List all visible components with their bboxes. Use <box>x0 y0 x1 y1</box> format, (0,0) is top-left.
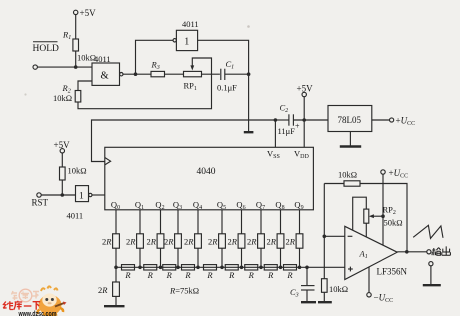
wire op-amp output <box>397 251 427 253</box>
junction dot C3 tap <box>305 266 309 270</box>
wire R2 bottom feedback to RP1 wiper <box>78 58 212 109</box>
svg-text:VSS: VSS <box>267 149 280 161</box>
svg-text:A1: A1 <box>359 249 368 261</box>
wire +5V to R1 <box>75 15 77 39</box>
junction dot VDD node <box>302 118 306 122</box>
potentiometer RP1 <box>184 71 202 92</box>
watermark title wei ku yi xia (red) <box>3 301 40 310</box>
svg-text:2R: 2R <box>102 237 112 247</box>
resistor 2R (bit 0) <box>102 234 119 248</box>
svg-text:2R: 2R <box>146 237 156 247</box>
ground (10k) <box>318 301 332 303</box>
wire VDD pin <box>303 120 305 147</box>
watermark ghost logo <box>12 289 40 302</box>
wire Q3 to 2R <box>177 210 179 234</box>
svg-text:Q3: Q3 <box>173 200 182 212</box>
op-amp A1 LF356N <box>345 226 408 279</box>
node Q5 output pin <box>217 200 226 212</box>
junction dot rail 8 <box>279 266 283 270</box>
junction dot rail 4 <box>196 266 200 270</box>
svg-text:R: R <box>286 270 293 280</box>
svg-text:+UCC: +UCC <box>389 168 409 180</box>
svg-text:RP2: RP2 <box>383 205 396 217</box>
wire Q0 to 2R <box>115 210 117 234</box>
resistor R (ladder 9) <box>284 265 297 280</box>
svg-text:R=75kΩ: R=75kΩ <box>169 286 199 296</box>
junction dot rail 0 <box>114 266 118 270</box>
svg-text:R: R <box>147 270 154 280</box>
wire 2R to rail <box>160 248 162 267</box>
wire 2R to rail <box>139 248 141 267</box>
wire rail to C3 <box>306 267 308 285</box>
svg-text:LF356N: LF356N <box>377 267 408 277</box>
svg-text:R1: R1 <box>62 30 71 42</box>
node +5V terminal (RST) <box>54 140 71 153</box>
wire NAND lower input to R2 <box>78 81 92 91</box>
svg-text:R: R <box>184 270 191 280</box>
capacitor C2 11uF <box>278 103 301 137</box>
wire Q2 to 2R <box>160 210 162 234</box>
resistor 10k feedback <box>338 170 360 187</box>
wire feedback top <box>324 183 344 185</box>
wiper arrowhead RP1 <box>190 65 194 70</box>
svg-text:10kΩ: 10kΩ <box>329 284 348 294</box>
node Q4 output pin <box>193 200 202 212</box>
svg-text:&: & <box>101 71 109 82</box>
regulator 78L05 <box>328 106 372 132</box>
ground (C3) <box>301 301 316 303</box>
node -Ucc terminal <box>367 293 393 305</box>
wire Q6 to 2R <box>241 210 243 234</box>
junction dot rail 5 <box>220 266 224 270</box>
resistor R (ladder 3) <box>163 265 176 280</box>
junction dot rail 3 <box>176 266 180 270</box>
node Q8 output pin <box>275 200 284 212</box>
wire NAND output to R3 <box>123 73 151 75</box>
node Q0 output pin <box>111 200 120 212</box>
wire Q5 to 2R <box>221 210 223 234</box>
svg-text:RP1: RP1 <box>184 81 197 93</box>
node +5V terminal (top left) <box>74 8 97 18</box>
svg-text:+5V: +5V <box>80 8 97 18</box>
svg-text:R: R <box>166 270 173 280</box>
junction dot rail 7 <box>259 266 263 270</box>
resistor 10k pullup (RST) <box>60 166 87 181</box>
resistor R (ladder 8) <box>264 265 277 280</box>
svg-text:R: R <box>228 270 235 280</box>
resistor R (ladder 5) <box>204 265 217 280</box>
svg-text:11μF: 11μF <box>278 126 296 136</box>
wire 2R to rail <box>280 248 282 267</box>
junction dot RP2 wiper <box>381 214 385 218</box>
svg-text:10kΩ: 10kΩ <box>53 93 72 103</box>
wire RP1 to C1 <box>202 73 220 75</box>
svg-text:2R: 2R <box>285 237 295 247</box>
svg-text:4011: 4011 <box>94 54 111 64</box>
svg-text:1: 1 <box>184 36 189 47</box>
wire Q7 to 2R <box>260 210 262 234</box>
svg-text:10kΩ: 10kΩ <box>338 170 357 180</box>
svg-text:R: R <box>248 270 255 280</box>
wire C1 to inverter-output node <box>225 73 249 75</box>
svg-text:10kΩ: 10kΩ <box>68 166 87 176</box>
wire node to C2 <box>275 119 288 121</box>
capacitor C3 <box>290 286 315 299</box>
junction dot NAND output <box>134 72 138 76</box>
svg-text:Q8: Q8 <box>275 200 284 212</box>
resistor 10k to ground (inverting input) <box>322 279 349 294</box>
resistor 2R (bit 1) <box>126 234 143 248</box>
wire RP2 bottom to op-amp <box>365 223 367 237</box>
node Q3 output pin <box>173 200 182 212</box>
wire inverter to 4040 reset pin <box>92 194 105 196</box>
node Q2 output pin <box>155 200 164 212</box>
svg-text:VDD: VDD <box>294 149 309 161</box>
ground (regulator) <box>340 145 361 147</box>
node output ground terminal <box>429 262 433 266</box>
svg-text:C3: C3 <box>290 287 299 299</box>
svg-text:C2: C2 <box>280 103 289 115</box>
svg-text:0.1μF: 0.1μF <box>217 83 237 93</box>
svg-text:R: R <box>267 270 274 280</box>
svg-text:+: + <box>295 122 300 131</box>
svg-text:Q9: Q9 <box>294 200 303 212</box>
junction dot R1/HOLD <box>74 65 78 69</box>
ground (output) <box>423 284 441 286</box>
svg-text:2R: 2R <box>266 237 276 247</box>
wire HOLD to NAND input <box>37 66 92 68</box>
resistor 2R (bit 9) <box>285 234 302 248</box>
wire pullup to RST line <box>61 180 63 195</box>
wire 2R to rail <box>221 248 223 267</box>
node +Ucc terminal (op-amp) <box>381 168 408 180</box>
wire Q4 to 2R <box>197 210 199 234</box>
svg-text:2R: 2R <box>208 237 218 247</box>
label output (Chinese shu chu) <box>432 246 450 255</box>
wire RP2 top to op-amp <box>353 197 367 230</box>
resistor R1 10k <box>62 30 96 63</box>
wire 78L05 output <box>372 119 390 121</box>
wire C2 to 78L05 input <box>293 119 328 121</box>
svg-text:Q5: Q5 <box>217 200 226 212</box>
wire +Ucc down to op-amp <box>382 174 384 245</box>
svg-text:R: R <box>124 270 131 280</box>
svg-text:C1: C1 <box>226 59 235 71</box>
node RST input terminal <box>32 193 49 208</box>
resistor 2R (bit 7) <box>247 234 264 248</box>
wire C3 to ground <box>306 290 308 302</box>
node HOLD input terminal <box>33 42 60 70</box>
resistor 2R (bit 4) <box>184 234 201 248</box>
wire R3 to RP1 <box>165 73 184 75</box>
junction dot Vss node <box>274 118 278 122</box>
wire RP2 wiper arrow <box>373 215 384 217</box>
node +5V terminal (middle) <box>297 84 314 97</box>
svg-text:4040: 4040 <box>197 167 216 177</box>
resistor R (ladder 1) <box>122 265 135 280</box>
wire 78L05 ground lead <box>349 132 351 146</box>
resistor 2R (bit 3) <box>164 234 181 248</box>
svg-text:2R: 2R <box>126 237 136 247</box>
svg-text:2R: 2R <box>184 237 194 247</box>
resistor 2R (bit 5) <box>208 234 225 248</box>
watermark mascot <box>38 286 67 315</box>
svg-text:+5V: +5V <box>297 84 314 94</box>
junction dot RST <box>61 193 65 197</box>
wire -Ucc lead <box>368 267 370 293</box>
svg-text:R: R <box>206 270 213 280</box>
scan speck <box>24 93 26 95</box>
ground (oscillator) <box>244 131 254 133</box>
wire 10k to ground <box>323 292 325 301</box>
inverter U1c 4011 (RST) <box>67 186 93 221</box>
wire 2R terminator to ground <box>115 296 117 305</box>
node Q1 output pin <box>135 200 144 212</box>
resistor R (ladder 6) <box>225 265 238 280</box>
wire inverter output down to C1 node <box>198 40 249 131</box>
svg-text:Q4: Q4 <box>193 200 202 212</box>
scan speck <box>247 25 250 28</box>
svg-text:Q1: Q1 <box>135 200 144 212</box>
node Q6 output pin <box>236 200 245 212</box>
wire Q1 to 2R <box>139 210 141 234</box>
wire feedback to output <box>360 184 407 252</box>
node Q9 output pin <box>294 200 303 212</box>
svg-text:+5V: +5V <box>54 140 71 150</box>
svg-text:HOLD: HOLD <box>33 44 60 54</box>
svg-text:4011: 4011 <box>182 19 199 29</box>
wire 2R to rail <box>177 248 179 267</box>
junction dot C1 right <box>247 72 251 76</box>
wire terminator 2R from rail <box>115 267 117 282</box>
waveform sawtooth icon <box>413 225 443 238</box>
resistor R2 10k <box>53 83 81 103</box>
inverter U1b 4011 (top) <box>173 19 199 51</box>
junction dot rail 6 <box>240 266 244 270</box>
wire feedback node vertical <box>323 184 325 279</box>
wire +5V to pullup <box>61 153 63 167</box>
wire terminal to ground <box>430 266 432 285</box>
svg-text:2R: 2R <box>247 237 257 247</box>
svg-text:www.dzsc.com: www.dzsc.com <box>18 309 57 316</box>
ground (ladder terminator) <box>104 305 125 307</box>
wire Q8 to 2R <box>280 210 282 234</box>
svg-text:78L05: 78L05 <box>338 115 362 125</box>
junction dot output <box>405 250 409 254</box>
NAND gate U1a 4011 <box>92 54 123 85</box>
resistor 2R terminator <box>98 282 119 296</box>
wire 2R to rail <box>260 248 262 267</box>
svg-text:50kΩ: 50kΩ <box>384 218 403 228</box>
svg-text:1: 1 <box>79 192 84 202</box>
wire Q9 to 2R <box>299 210 301 234</box>
svg-text:R3: R3 <box>151 60 160 72</box>
svg-text:2R: 2R <box>164 237 174 247</box>
svg-text:−UCC: −UCC <box>374 293 394 305</box>
node output terminal <box>427 250 431 254</box>
resistor R (ladder 7) <box>245 265 258 280</box>
svg-text:Q6: Q6 <box>236 200 245 212</box>
wire 2R to rail <box>241 248 243 267</box>
svg-text:4011: 4011 <box>67 211 84 221</box>
node Q7 output pin <box>256 200 265 212</box>
svg-text:Q0: Q0 <box>111 200 120 212</box>
resistor R3 <box>151 60 165 77</box>
resistor 2R (bit 2) <box>146 234 163 248</box>
svg-text:Q7: Q7 <box>256 200 265 212</box>
resistor R (ladder 2) <box>144 265 157 280</box>
capacitor C1 0.1uF <box>217 59 237 93</box>
wire 2R to rail <box>197 248 199 267</box>
resistor R (ladder 4) <box>182 265 195 280</box>
resistor 2R (bit 8) <box>266 234 283 248</box>
junction dot rail 2 <box>159 266 163 270</box>
wire inverting input <box>324 235 345 237</box>
junction dot rail 9 <box>298 266 302 270</box>
potentiometer RP2 50k <box>364 205 403 228</box>
IC 4040 counter <box>105 147 314 210</box>
node +Ucc terminal (regulator output) <box>390 116 416 128</box>
wire RST to inverter <box>41 194 75 196</box>
junction dot rail 1 <box>138 266 142 270</box>
wire 2R to rail <box>115 248 117 267</box>
wire +5V down to VDD node <box>303 97 305 120</box>
svg-text:Q2: Q2 <box>155 200 164 212</box>
wire Vss pin <box>274 120 276 147</box>
svg-text:2R: 2R <box>227 237 237 247</box>
resistor 2R (bit 6) <box>227 234 244 248</box>
wire 2R to rail <box>299 248 301 267</box>
junction dot inverting input <box>323 235 327 239</box>
svg-text:+UCC: +UCC <box>396 116 416 128</box>
svg-text:RST: RST <box>32 198 49 208</box>
wire R1 to node <box>75 51 77 67</box>
svg-text:2R: 2R <box>98 285 108 295</box>
wire clock line to 4040 <box>92 120 276 162</box>
wire junction up to inverter input <box>136 40 173 74</box>
wire ladder rail to op-amp + input <box>116 266 345 268</box>
